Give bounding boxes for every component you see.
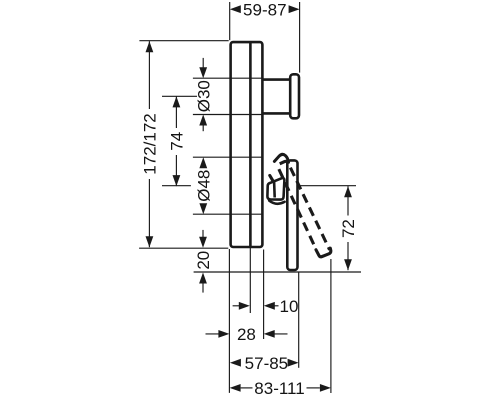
dashed hub mark [270, 176, 273, 182]
svg-text:10: 10 [280, 297, 299, 316]
lever hook top [274, 154, 288, 162]
dim 172/172 line [148, 41, 150, 109]
lever (dashed alternate position) right edge [280, 161, 330, 249]
dim 172/172 top extension [139, 40, 228, 42]
handle hub [267, 178, 284, 200]
top dim 59-87 arrows [230, 5, 241, 13]
thermostat knob stem bottom [263, 112, 290, 115]
top dim 59-87 extension line left [229, 2, 231, 40]
dim 57-85 arrows [230, 359, 241, 367]
svg-text:28: 28 [237, 325, 256, 344]
handle hub inner line [273, 182, 276, 198]
lower wall line [194, 271, 361, 273]
dim O30 top extension [193, 77, 263, 79]
dim 10 tails [233, 305, 245, 307]
extension line plate face lower [263, 250, 265, 340]
svg-text:172/172: 172/172 [141, 113, 160, 174]
dim O30 arrow tails [202, 58, 204, 70]
extension line plate left lower [228, 249, 230, 393]
dim 74 line [175, 96, 177, 128]
dim O48 bottom extension [193, 213, 263, 215]
lever (dashed alternate position) left edge [278, 166, 316, 249]
dim 72 line [347, 186, 349, 215]
svg-text:59-87: 59-87 [243, 0, 286, 19]
dim 28 tails [206, 333, 223, 335]
dim O30 arrows [199, 67, 207, 78]
lever (solid position) bar [287, 160, 297, 270]
handle axis line left [162, 185, 191, 187]
svg-text:83-111: 83-111 [254, 379, 304, 398]
thermostat knob stem top [263, 78, 290, 81]
knob axis line [162, 95, 197, 97]
extension line dashed lever tip lower [330, 259, 332, 393]
dim 83-111 arrows [230, 384, 241, 392]
dim O48 top extension [193, 156, 263, 158]
top dim 59-87 extension line right [299, 2, 301, 73]
dim 20 arrow tails [202, 230, 204, 240]
svg-text:72: 72 [339, 219, 358, 238]
dim 172/172 arrows [146, 41, 154, 52]
dim 172/172 bottom extension (plate bottom line) [139, 247, 228, 249]
extension line plate joint lower [249, 248, 251, 313]
dim 28 arrows [218, 330, 229, 338]
dim 83-111 tails [241, 387, 253, 389]
dim O30 bottom extension [193, 114, 263, 116]
svg-text:74: 74 [168, 132, 187, 151]
dim 74 arrows [173, 96, 181, 107]
extension line lever face lower [298, 273, 300, 368]
svg-text:Ø30: Ø30 [194, 80, 213, 112]
svg-text:20: 20 [194, 251, 213, 270]
lever (dashed alternate position) tip elbow [316, 248, 331, 257]
dim 20 arrows [199, 237, 207, 248]
wall plate outline [231, 42, 263, 247]
thermostat knob cap [290, 74, 299, 118]
dim 72 arrows [344, 186, 352, 197]
svg-text:Ø48: Ø48 [195, 170, 214, 202]
handle axis line right [300, 185, 356, 187]
dim 10 arrows [239, 302, 250, 310]
dim O48 arrows [199, 157, 207, 168]
wall plate inner joint line [249, 42, 252, 247]
svg-text:57-85: 57-85 [245, 354, 288, 373]
handle hub lip [269, 201, 284, 204]
